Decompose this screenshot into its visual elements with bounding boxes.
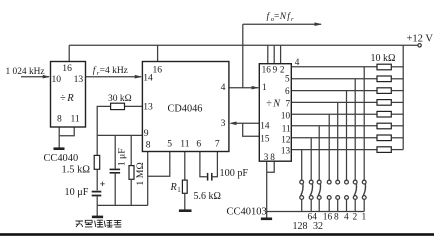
wire right supply rail feeding 10k resistor bank <box>402 45 404 149</box>
svg-text:=: = <box>274 12 279 22</box>
wire 1uF to bottom filter node <box>114 174 116 206</box>
svg-text:8: 8 <box>334 213 339 223</box>
svg-text:6: 6 <box>285 86 290 96</box>
wire filter node ground stub <box>96 205 98 216</box>
wire CC40103 pin 13 (J7) to 10k resistor <box>291 149 377 151</box>
label loop filter caption (CJK) char lv <box>95 220 104 227</box>
switch weight 8 open <box>336 180 340 211</box>
wire +12V top supply rail <box>69 44 418 46</box>
switch weight 4 open <box>345 180 349 211</box>
svg-text:3: 3 <box>221 118 226 129</box>
resistor 10k row 7 <box>377 135 391 141</box>
switch weight 32 closed <box>317 180 321 211</box>
svg-text:4: 4 <box>344 213 349 223</box>
svg-text:2: 2 <box>353 213 358 223</box>
svg-text:32: 32 <box>313 221 323 232</box>
IC U1 CC4040 divide-by-R counter box <box>51 62 86 128</box>
wire CC40103 pin 8 stub joined to pin 3 <box>267 161 275 172</box>
wire rail stub to CD4046 pin 16 <box>157 45 159 61</box>
svg-text:=4 kHz: =4 kHz <box>100 66 128 76</box>
svg-text:5: 5 <box>285 73 290 83</box>
resistor 10k row 2 <box>377 76 391 82</box>
svg-text:5: 5 <box>167 139 172 150</box>
label loop filter caption (CJK) char lu <box>85 220 92 227</box>
capacitor 1uF <box>110 168 121 170</box>
svg-text:1 μF: 1 μF <box>116 148 127 167</box>
svg-text:8: 8 <box>146 140 151 151</box>
svg-text:16: 16 <box>153 65 163 76</box>
svg-text:1: 1 <box>177 186 181 194</box>
wire drop J6 to switch weight 64 <box>310 138 312 181</box>
svg-text:+12 V: +12 V <box>407 34 434 45</box>
wire CD4046 pin 8 down to filter node <box>147 152 149 206</box>
wire CD4046 pin 11 to R1 <box>184 152 186 181</box>
svg-text:11: 11 <box>71 114 80 125</box>
svg-text:1 MΩ: 1 MΩ <box>135 162 146 185</box>
label polarity plus of 10uF <box>100 182 104 186</box>
wire CC40103 pin 11 (J5) to 10k resistor <box>291 125 377 127</box>
svg-text:8: 8 <box>57 114 62 125</box>
svg-text:R: R <box>170 182 178 193</box>
svg-text:1.5 kΩ: 1.5 kΩ <box>62 165 91 176</box>
svg-text:r: r <box>291 16 294 23</box>
svg-text:8: 8 <box>270 152 275 162</box>
page bottom rule <box>0 233 434 236</box>
wire resistor row 8 to supply rail <box>391 149 403 151</box>
svg-text:5.6 kΩ: 5.6 kΩ <box>194 191 221 202</box>
wire bottom filter node <box>97 204 148 206</box>
svg-text:R: R <box>66 93 74 104</box>
wire CC40103 pin 5 (J1) to 10k resistor <box>291 78 377 80</box>
svg-text:1: 1 <box>362 213 367 223</box>
wire resistor row 2 to supply rail <box>391 78 403 80</box>
svg-text:CC40103: CC40103 <box>227 207 267 218</box>
ground under CC40103 <box>261 218 272 221</box>
resistor 10k row 8 <box>377 147 391 153</box>
svg-text:128: 128 <box>293 221 308 232</box>
wire 1.5k to 10uF capacitor <box>96 169 98 190</box>
svg-text:10: 10 <box>52 74 62 85</box>
switch weight 1 closed <box>362 180 366 211</box>
wire CC40103 pin 6 (J2) to 10k resistor <box>291 90 377 92</box>
svg-text:10 μF: 10 μF <box>65 187 89 198</box>
ground under loop filter <box>92 216 103 219</box>
resistor 1 MOhm <box>129 166 134 180</box>
wire 10uF to bottom filter node <box>96 196 98 205</box>
switch weight 16 open <box>327 180 331 211</box>
svg-text:9: 9 <box>144 128 149 139</box>
wire rail stub to CC40103 pin 9 <box>273 45 275 63</box>
switch weight 128 closed <box>300 180 304 211</box>
resistor 10k row 4 <box>377 100 391 106</box>
ground under R1 <box>179 209 192 212</box>
wire rail stub to CC4040 pin 16 <box>68 45 70 61</box>
switch weight 2 closed <box>353 180 357 211</box>
wire CC40103 pin 15 tied to pin 14 <box>243 123 260 136</box>
svg-text:11: 11 <box>282 123 291 133</box>
svg-text:16: 16 <box>323 213 333 223</box>
svg-text:15: 15 <box>260 133 270 143</box>
svg-text:÷: ÷ <box>60 93 66 104</box>
wire 1uF branch from node <box>114 135 116 168</box>
wire CC40103 pin 14 feedback to CD4046 pin 3 arrow <box>232 122 259 124</box>
resistor 1.5 kOhm <box>94 155 100 169</box>
wire resistor row 6 to supply rail <box>391 125 403 127</box>
label loop filter caption (CJK) char qi <box>114 220 122 227</box>
wire CD4046 pin 13 to 30k resistor <box>125 105 143 107</box>
svg-text:CD4046: CD4046 <box>168 104 203 115</box>
svg-text:1: 1 <box>262 82 267 92</box>
svg-text:100 pF: 100 pF <box>220 168 249 179</box>
wire drop J4 to switch weight 16 <box>328 114 330 180</box>
wire CC4040 pin 8 down to ground <box>58 127 60 148</box>
resistor 10k row 5 <box>377 111 391 117</box>
resistor 10k row 6 <box>377 123 391 129</box>
wire 1M branch from node <box>130 135 132 165</box>
wire rail stub to CC40103 pin 2 <box>280 45 282 63</box>
wire resistor row 3 to supply rail <box>391 90 403 92</box>
svg-text:14: 14 <box>143 72 153 83</box>
svg-text:16: 16 <box>62 63 72 74</box>
wire resistor row 1 to supply rail <box>391 66 403 68</box>
wire CD4046 pin 7 to 100pF <box>213 152 218 177</box>
wire fo output arrow line <box>243 23 321 25</box>
svg-text:9: 9 <box>273 64 278 74</box>
IC U2 CD4046 PLL box <box>142 62 229 152</box>
wire CC40103 pin 4 (J0) to 10k resistor <box>291 66 377 68</box>
wire CD4046 pin 4 VCO out to CC40103 pin 1 arrow <box>229 87 258 89</box>
wire 1M to bottom filter node <box>130 179 132 205</box>
svg-text:16: 16 <box>262 64 272 74</box>
wire CC40103 pin 3 stub <box>266 161 268 172</box>
svg-text:CC4040: CC4040 <box>44 153 79 164</box>
wire resistor row 7 to supply rail <box>391 137 403 139</box>
svg-text:4: 4 <box>295 57 300 67</box>
wire CD4046 pin 5 jog to pin 8 line <box>148 152 170 177</box>
wire CD4046 pin 6 to 100pF <box>200 152 207 177</box>
svg-text:7: 7 <box>286 98 291 108</box>
svg-text:10 kΩ: 10 kΩ <box>371 53 396 64</box>
terminal +12V <box>418 44 421 47</box>
svg-text:14: 14 <box>260 120 270 130</box>
wire R1 to ground <box>184 193 186 209</box>
svg-text:3: 3 <box>264 152 269 162</box>
wire VCO-in node to CD4046 pin 9 <box>97 134 142 136</box>
wire pins 3,8 down to ground <box>266 172 268 218</box>
capacitor 100pF <box>207 173 209 181</box>
svg-text:4: 4 <box>221 82 226 93</box>
wire drop J0 to switch weight 1 <box>363 67 365 181</box>
label loop filter caption (CJK) char huan <box>76 221 84 227</box>
svg-text:13: 13 <box>143 101 153 112</box>
resistor 10k row 1 <box>377 64 391 70</box>
resistor 30 kOhm <box>111 103 125 109</box>
resistor R1 5.6 kOhm <box>182 180 187 193</box>
wire resistor row 5 to supply rail <box>391 113 403 115</box>
svg-text:6: 6 <box>196 139 201 150</box>
wire CC40103 pin 12 (J6) to 10k resistor <box>291 137 377 139</box>
wire fo output vertical branch from VCO out <box>242 24 244 87</box>
wire drop J7 to switch weight 128 <box>301 150 303 181</box>
wire CC40103 pin 10 (J4) to 10k resistor <box>291 113 377 115</box>
wire drop J5 to switch weight 32 <box>318 126 320 181</box>
wire 30k resistor left end down to filter node <box>97 106 110 155</box>
capacitor 10uF electrolytic <box>92 191 102 193</box>
svg-text:30 kΩ: 30 kΩ <box>108 94 132 104</box>
wire drop J2 to switch weight 4 <box>346 91 348 181</box>
label loop filter caption (CJK) char bo <box>104 220 112 227</box>
wire resistor row 4 to supply rail <box>391 101 403 103</box>
svg-text:13: 13 <box>281 145 291 155</box>
wire 1024 kHz input arrow into CC4040 pin 10 <box>21 76 49 78</box>
wire drop J1 to switch weight 2 <box>354 79 356 181</box>
svg-text:7: 7 <box>215 139 220 150</box>
svg-text:1 024 kHz: 1 024 kHz <box>6 67 45 77</box>
svg-text:12: 12 <box>281 135 291 145</box>
wire drop J3 to switch weight 8 <box>337 102 339 180</box>
wire CC40103 pin 7 (J3) to 10k resistor <box>291 101 377 103</box>
IC U3 CC40103 divide-by-N counter box <box>259 64 291 162</box>
svg-text:÷: ÷ <box>266 99 272 110</box>
ground under CC4040 <box>54 147 65 150</box>
wire fr=4kHz from CC4040 pin 13 to CD4046 pin 14 <box>86 76 142 78</box>
svg-text:13: 13 <box>74 74 84 85</box>
resistor 10k row 3 <box>377 88 391 94</box>
svg-text:10: 10 <box>281 110 291 120</box>
wire switch common bottom rail <box>267 211 365 213</box>
wire CC4040 pin 11 jog joining pin 8 <box>59 127 74 136</box>
switch weight 64 closed <box>309 180 313 211</box>
svg-text:11: 11 <box>180 139 189 150</box>
wire rail stub to CC40103 pin 16 <box>267 45 269 63</box>
svg-text:N: N <box>279 12 287 22</box>
svg-text:N: N <box>272 99 281 110</box>
